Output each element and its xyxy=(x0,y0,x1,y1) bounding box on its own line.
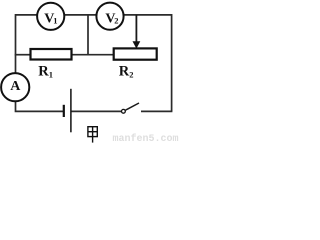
svg-text:A: A xyxy=(10,79,21,94)
ammeter A xyxy=(1,73,29,101)
wire left rail junction to ammeter top xyxy=(15,55,17,74)
voltmeter V1 xyxy=(37,3,64,30)
switch pivot xyxy=(122,109,126,113)
rheostat R2 slider arrowhead xyxy=(133,41,141,48)
wire battery to switch xyxy=(71,110,122,112)
switch lever xyxy=(125,103,139,110)
label jia (Chinese character) drawn as strokes xyxy=(88,127,97,143)
svg-text:R: R xyxy=(119,64,130,80)
wire top-left from corner to V1 xyxy=(16,15,38,55)
label R2 xyxy=(119,64,134,80)
resistor R1 xyxy=(31,49,72,60)
rheostat R2 slider stem xyxy=(135,15,137,42)
wire ammeter bottom to bottom-left corner then to battery xyxy=(16,101,64,111)
wire mid from left rail to R1 xyxy=(15,54,31,56)
wire junction drop at node between R1 and R2 xyxy=(87,15,89,56)
svg-text:1: 1 xyxy=(49,70,53,80)
label R1 xyxy=(38,64,53,80)
battery positive plate (long) xyxy=(70,89,72,133)
voltmeter V2 xyxy=(96,3,123,30)
svg-text:2: 2 xyxy=(114,16,118,26)
wire switch to bottom-right corner xyxy=(141,110,172,112)
svg-text:manfen5.com: manfen5.com xyxy=(113,133,179,145)
wire V1 to V2 xyxy=(65,14,97,16)
svg-text:1: 1 xyxy=(53,16,57,26)
battery negative plate (short) xyxy=(63,105,65,117)
rheostat R2 body xyxy=(114,48,157,59)
svg-text:2: 2 xyxy=(129,70,133,80)
wire R1 to R2 xyxy=(72,54,114,56)
svg-text:R: R xyxy=(38,64,49,80)
wire V2 to top-right corner and right rail down to switch xyxy=(124,15,172,112)
